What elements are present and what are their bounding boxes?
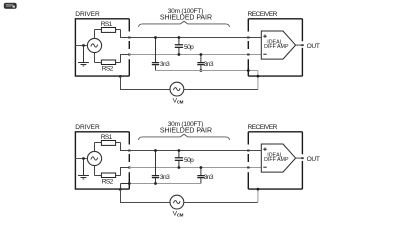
wire RS1 to pin [121,30,130,38]
corner logo badge [4,3,17,9]
wire shield down to vcm rail [257,71,259,90]
pin receiver in- [247,167,250,169]
node C5 bottom [178,166,181,169]
node C2 top [178,36,181,39]
brace [139,134,230,140]
label VCM [173,97,184,104]
wire shield rail to driver box [129,183,201,185]
wire top conductor [129,150,261,152]
wire lower conductor [129,54,261,56]
capacitor C5 50p [175,151,183,168]
svg-text:SHIELDED PAIR: SHIELDED PAIR [160,128,212,135]
pin receiver in+ [247,37,250,39]
wire source to box edge [75,45,87,47]
node C6 top [200,166,203,169]
resistor RS2 [95,173,121,178]
wire vcm rail right [184,89,258,91]
wire op-amp output [296,157,303,159]
svg-text:RS1: RS1 [101,21,113,28]
svg-text:RECEIVER: RECEIVER [248,11,278,18]
pin driver out+ [128,37,131,39]
pin driver out+ [128,150,131,152]
svg-text:DIFF AMP: DIFF AMP [264,157,289,163]
svg-text:50p: 50p [184,157,194,164]
svg-text:3n3: 3n3 [204,61,214,68]
node C3 bottom [200,69,203,72]
node source/gnd junction [82,157,85,160]
wire vcm to receiver bottom [257,189,259,202]
op-amp U1 [261,31,295,59]
ground [78,159,89,179]
node driver bottom [119,75,122,78]
wire op-amp output [296,44,303,46]
label VCM [173,210,184,217]
pin driver out- [128,167,131,169]
voltage source V1 [87,30,101,63]
node source/gnd junction [82,44,85,47]
node driver bottom [119,188,122,191]
svg-text:OUT: OUT [307,43,320,50]
pin receiver in+ [247,150,250,152]
voltage source VCM2 [170,195,184,209]
node C4 top [154,149,157,152]
wire source to box edge [75,158,87,160]
svg-text:SHIELDED PAIR: SHIELDED PAIR [160,15,212,22]
capacitor C1 3n3 [152,38,159,71]
node receiver bottom [257,188,260,191]
node shield at C4 [154,182,157,185]
resistor RS2 [95,60,121,65]
node C3 top [200,53,203,56]
svg-text:3n3: 3n3 [160,174,170,181]
svg-text:RS1: RS1 [101,134,113,141]
wire top conductor [129,37,261,39]
node C5 top [178,149,181,152]
voltage source V2 [87,143,101,176]
svg-text:3n3: 3n3 [160,61,170,68]
svg-text:CM: CM [177,100,184,105]
resistor RS1 [95,28,121,33]
op-amp U2 [261,144,295,172]
wire shield to driver bottom [120,184,122,190]
svg-text:RECEIVER: RECEIVER [248,124,278,131]
capacitor C4 3n3 [152,151,159,184]
svg-text:RS2: RS2 [102,65,114,72]
pin receiver in- [247,54,250,56]
receiver box [248,132,302,189]
node shield at receiver edge [247,69,250,72]
node C1 top [154,36,157,39]
wire lower conductor [129,167,261,169]
svg-text:DIFF AMP: DIFF AMP [264,44,289,50]
wire RS2 to pin [121,55,130,63]
svg-text:CM: CM [177,213,184,218]
svg-text:DRIVER: DRIVER [75,11,100,18]
pin OUT [301,44,304,46]
svg-text:RS2: RS2 [102,178,114,185]
receiver box [248,19,302,76]
pin OUT [301,157,304,159]
wire RS1 to pin [121,143,130,151]
pin driver out- [128,54,131,56]
node shield at receiver bottom [257,75,260,78]
voltage source VCM [170,82,184,96]
svg-text:3n3: 3n3 [204,174,214,181]
driver box [75,19,129,76]
svg-text:DRIVER: DRIVER [75,124,100,131]
node C2 bottom [178,53,181,56]
svg-text:OUT: OUT [307,156,320,163]
node shield at driver edge [128,182,131,185]
wire RS2 to pin [121,168,130,176]
capacitor C6 3n3 [197,168,204,184]
ground [78,46,89,66]
resistor RS1 [95,141,121,146]
wire driver to vcm rail [121,189,171,202]
wire vcm rail right [184,202,258,204]
wire driver to vcm rail [121,76,171,89]
capacitor C2 50p [175,38,183,55]
wire shield rail [155,70,258,72]
driver box [75,132,129,189]
brace [139,21,230,27]
capacitor C3 3n3 [197,55,204,71]
svg-text:50p: 50p [184,44,194,51]
